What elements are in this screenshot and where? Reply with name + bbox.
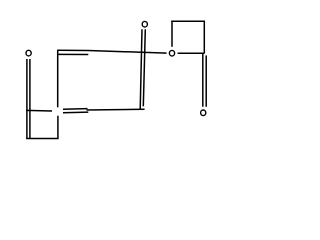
bond oxetane left edge [171, 21, 173, 47]
bond ring bottom double a [63, 108, 88, 111]
bond C=O right double line b [205, 55, 207, 106]
bond square top crossbar [26, 109, 52, 112]
bond ring bottom single [87, 108, 145, 111]
atom O ether [169, 50, 174, 56]
bond square bottom edge [26, 138, 58, 140]
bond C=O right double line a [202, 53, 204, 106]
bond ring top main [57, 50, 166, 53]
bond square right edge [57, 116, 59, 139]
bond ring left edge [57, 50, 59, 107]
bond C=O left double line a [26, 59, 28, 139]
bond ring right double b [143, 29, 145, 106]
bond ring bottom double b [63, 111, 88, 114]
bond oxetane top edge [171, 20, 205, 22]
bond oxetane right edge [203, 21, 205, 54]
atom O top-left [26, 50, 31, 56]
atom O top-middle [142, 21, 147, 27]
bond ring right double a [140, 29, 142, 109]
bond ring top inner double [58, 53, 88, 55]
bond ether O right [178, 52, 204, 54]
bond C=O left double line b [29, 59, 31, 139]
atom O bottom-right [201, 110, 206, 116]
